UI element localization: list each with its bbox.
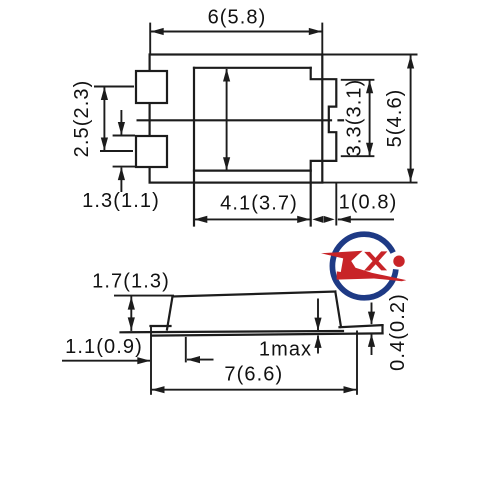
inner rect top edge <box>194 67 311 69</box>
dimension 6(5.8) <box>149 23 151 55</box>
svg-text:0.4(0.2): 0.4(0.2) <box>387 293 409 371</box>
dimension 7(6.6) <box>150 326 152 395</box>
dimension 4.1(3.7) <box>194 218 311 220</box>
right slope <box>335 292 341 328</box>
inner rect bottom edge <box>194 170 311 172</box>
dimension 1.1(0.9) <box>62 360 150 362</box>
svg-text:5(4.6): 5(4.6) <box>384 89 406 148</box>
dimension 2.5(2.3) <box>94 86 134 88</box>
svg-text:1.7(1.3): 1.7(1.3) <box>92 271 170 293</box>
long line A (1.7 ext + under-body top) <box>121 331 344 332</box>
red dot <box>393 256 404 267</box>
svg-text:1max: 1max <box>259 339 312 361</box>
left step <box>151 325 171 327</box>
dimension 5(4.6) <box>322 54 417 56</box>
svg-text:4.1(3.7): 4.1(3.7) <box>220 193 298 215</box>
blue ring <box>332 234 396 298</box>
svg-text:2.5(2.3): 2.5(2.3) <box>71 80 93 158</box>
dimension 3.3(3.1) <box>341 79 375 81</box>
center line (middle horizontal) <box>138 119 331 121</box>
dimension 1.3(1.1) <box>113 135 135 137</box>
terminal tab outline (right side) <box>311 68 337 226</box>
right lead top <box>340 325 383 327</box>
bottom line B <box>152 333 383 335</box>
dimension 1.7(1.3) <box>114 295 174 297</box>
inner rect left edge + extension down <box>193 68 195 226</box>
svg-text:1.1(0.9): 1.1(0.9) <box>65 336 143 358</box>
inner vertical double arrow <box>226 69 228 170</box>
dimension 1max <box>185 337 187 363</box>
pad P1 (top-left terminal) <box>136 71 167 103</box>
right lead tip cap <box>381 325 383 333</box>
logo X stroke 1 <box>364 252 387 271</box>
svg-text:1(0.8): 1(0.8) <box>339 192 398 214</box>
center line tick right of tab <box>339 119 344 121</box>
svg-text:7(6.6): 7(6.6) <box>224 364 283 386</box>
logo Z with blade swoosh <box>321 251 406 281</box>
body top edge <box>173 292 336 297</box>
logo X stroke 2 <box>364 251 387 270</box>
dimension 1(0.8) <box>335 184 337 226</box>
pad P2 (bottom-left terminal) <box>136 136 167 167</box>
package body outline <box>150 55 323 183</box>
dimension 0.4(0.2) <box>371 303 373 325</box>
svg-text:3.3(3.1): 3.3(3.1) <box>344 79 366 157</box>
ring gap (white arc at dot) <box>393 253 396 270</box>
svg-text:6(5.8): 6(5.8) <box>208 7 267 29</box>
svg-text:1.3(1.1): 1.3(1.1) <box>82 190 160 212</box>
left slope <box>167 297 173 330</box>
